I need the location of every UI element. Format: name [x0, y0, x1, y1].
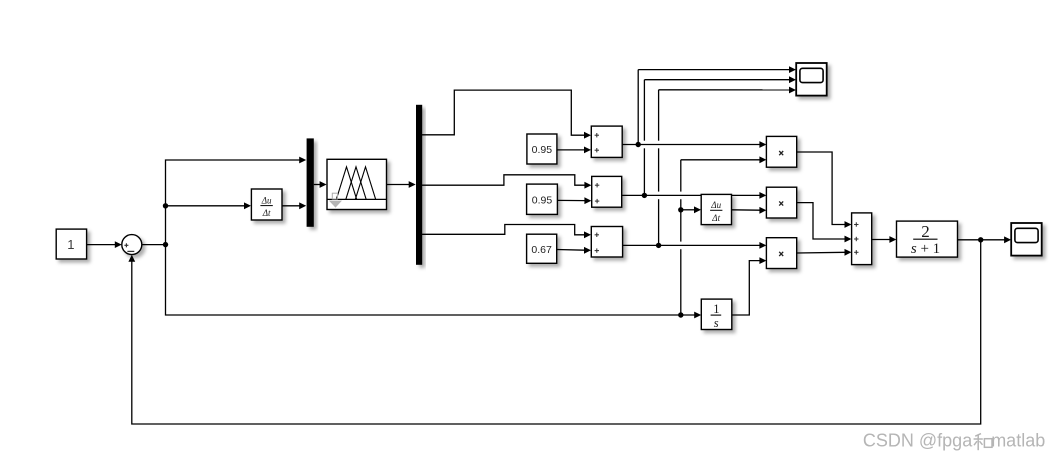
wire: feedback loop from plant output back to Sum circle [132, 240, 981, 424]
big sum block (+++) [852, 213, 872, 265]
scope block (plant output) [1011, 223, 1041, 256]
derivative block du/dt #1 [251, 189, 282, 220]
svg-text:0.67: 0.67 [531, 244, 552, 256]
product block 1 (x) [766, 136, 796, 167]
svg-text:1: 1 [713, 302, 719, 316]
wire: Fuzzy Logic Controller to Demux [387, 184, 410, 186]
scope block (3 inputs) [796, 63, 827, 96]
wire: Product2 output down to big Sum input 2 [797, 203, 846, 239]
svg-text:Δu: Δu [261, 195, 272, 205]
wire: sum3 output rail to Product3 input 1 [623, 244, 760, 246]
wire: N3 to du/dt #2 input [681, 209, 695, 211]
svg-text:0.95: 0.95 [532, 195, 553, 207]
sum block 1 (++) [591, 126, 622, 157]
demux bar [416, 105, 422, 265]
wire: sum1 output branch up to scope input 1 [637, 70, 639, 145]
wire: gain 0.95 (#2) to sum2 input 2 [557, 199, 585, 201]
gain block 0.95 (#2) [527, 184, 558, 214]
wire: error rail down to Integrator [166, 245, 696, 315]
wire: error to Product1 input 2 [681, 159, 760, 161]
transfer function block 2/(s+1) [897, 221, 958, 257]
wire: Product1 output down to big Sum input 1 [797, 152, 846, 225]
derivative block du/dt #2 [701, 194, 731, 224]
product block 2 (x) [766, 187, 796, 218]
wire: sum2 output branch up to scope input 2 [643, 80, 645, 196]
wire: Demux output 2 bump over gain block to sum2 input 1 [422, 175, 585, 185]
wire: scope input 3 horizontal [659, 89, 790, 91]
wire: sum3 output branch up to scope input 3 [658, 90, 660, 246]
wire: error signal vertical branch (to Product1, du/dt and integrator) [680, 160, 682, 315]
svg-text:CSDN @fpga: CSDN @fpga [863, 431, 973, 451]
node N3 (branch to du/dt #2) [678, 207, 683, 212]
sum block 3 (++) [591, 227, 622, 258]
mux bar [307, 138, 314, 226]
node N1 (error signal junction) [163, 242, 168, 247]
sum block 2 (++) [592, 176, 622, 207]
svg-text:s + 1: s + 1 [911, 241, 940, 257]
svg-text:matlab: matlab [991, 431, 1045, 451]
wire: du/dt #1 output to Mux input 2 [282, 205, 300, 207]
wire: N2 to du/dt #1 input [166, 205, 246, 207]
gain block 0.95 (#1) [527, 134, 557, 164]
svg-text:1: 1 [67, 237, 74, 252]
wire: big Sum to Transfer Fcn [872, 239, 891, 241]
junction J3 [656, 243, 661, 248]
svg-text:0.95: 0.95 [532, 144, 553, 156]
wire: gain 0.67 to sum3 input 2 [557, 249, 585, 252]
gain block 0.67 [527, 234, 557, 263]
wire: du/dt #2 output to Product2 input 2 [732, 209, 760, 211]
wire: Transfer Fcn output to Scope2 [958, 239, 1006, 241]
wire: gain 0.95 (#1) to sum1 input 2 [557, 149, 585, 151]
junction J2 [642, 193, 647, 198]
wire: Mux to Fuzzy Logic Controller [314, 184, 321, 186]
wire: Product3 output to big Sum input 3 [797, 251, 846, 254]
junction J1 [636, 142, 641, 147]
wire: Demux output 3 bump over gain block to sum3 input 1 [422, 225, 585, 235]
wire: Integrator output up to Product3 input 2 [732, 261, 760, 315]
wire: sum1 output rail to Product1 input 1 [622, 144, 760, 146]
integrator block 1/s [701, 299, 732, 329]
sum circle (+/-) [122, 235, 142, 255]
svg-text:Δt: Δt [711, 213, 720, 223]
svg-text:Δu: Δu [710, 200, 721, 210]
node N4 (integrator branch junction) [678, 312, 683, 317]
fuzzy logic controller block [327, 159, 387, 209]
wire: N1 up to Mux input 1 [166, 160, 301, 245]
svg-text:s: s [714, 316, 719, 330]
wire: scope input 1 horizontal [638, 69, 790, 71]
svg-text:2: 2 [921, 222, 930, 241]
wire: scope input 2 horizontal [644, 79, 790, 81]
node N2 (branch to du/dt #1) [163, 203, 168, 208]
fuzzy membership triangles icon [336, 167, 356, 200]
wire: Constant to Sum circle [87, 244, 116, 246]
wire: Sum circle to node N1 [142, 244, 166, 246]
wire: sum2 output rail to Product2 input 1 [622, 194, 760, 196]
product block 3 (x) [766, 238, 796, 269]
junction J4 (plant output) [978, 237, 983, 242]
white gaps at wire crossings [643, 141, 646, 149]
svg-text:Δt: Δt [262, 208, 271, 218]
wire: Demux output 1 bridge over to sum1 input 1 [422, 90, 585, 135]
constant block "1" [56, 229, 86, 259]
